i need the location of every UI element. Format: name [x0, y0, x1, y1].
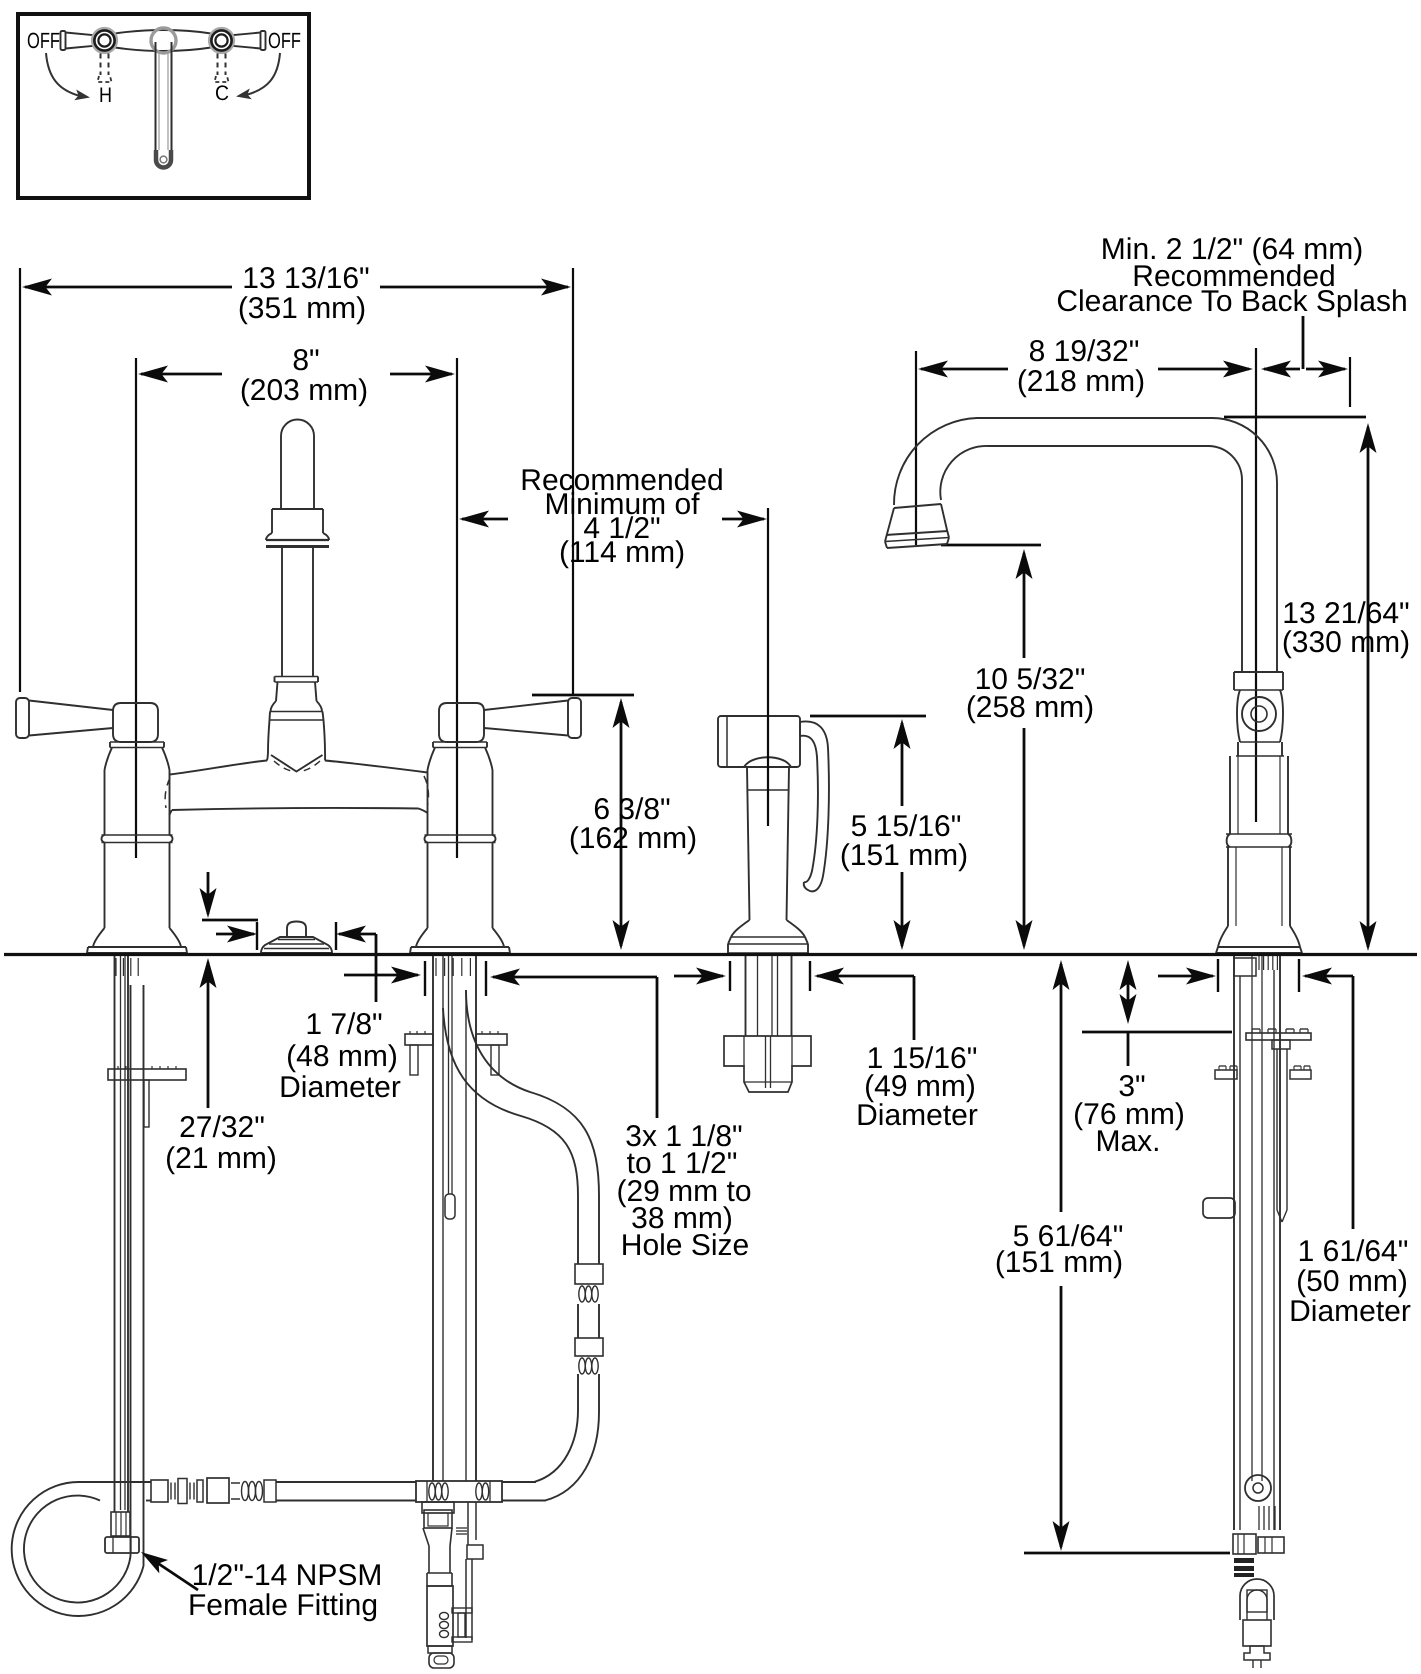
svg-text:(203 mm): (203 mm) [240, 374, 368, 407]
top view left lever [61, 31, 66, 50]
front view spout aerator collar [272, 508, 323, 510]
right spray wand top [1240, 1579, 1274, 1620]
dimension 13 13/16 extension left [19, 268, 21, 692]
svg-text:8": 8" [292, 344, 319, 377]
dimension 1 15/16 leader [913, 976, 916, 1040]
svg-text:OFF: OFF [27, 28, 60, 53]
svg-text:(21 mm): (21 mm) [165, 1142, 277, 1175]
front view left handle hub [113, 703, 158, 742]
svg-text:Clearance To Back Splash: Clearance To Back Splash [1056, 285, 1407, 318]
top view spout tip [156, 150, 171, 168]
sprayer body [747, 767, 750, 920]
svg-text:1 7/8": 1 7/8" [305, 1008, 382, 1041]
right spray wand body [1243, 1620, 1271, 1646]
counter line [4, 953, 1417, 956]
sprayer hose connector 2 [575, 1338, 603, 1356]
sprayer hose to tee curve [545, 1374, 599, 1501]
sprayer lever [800, 721, 829, 891]
side view spout right bend [1212, 418, 1277, 483]
svg-text:1 61/64": 1 61/64" [1298, 1235, 1409, 1268]
dimension 27/32 down arrow [207, 872, 210, 914]
dimension 3 max arrows [1120, 960, 1137, 990]
top view right curved arrow [246, 53, 280, 95]
top view cold handle circle [209, 28, 234, 53]
front view left column ring [101, 835, 104, 843]
dimension 13 13/16 extension right [572, 268, 574, 695]
front view spout funnel to tee [267, 720, 270, 761]
dimension 1 15/16 arrows and ticks [674, 975, 723, 978]
side view spout mouth [894, 504, 941, 508]
dimension 1 7/8 arrows [216, 933, 254, 936]
label 1/2-14 NPSM female fitting arrow [150, 1558, 198, 1590]
recommended minimum 4 1/2 arrows [462, 518, 508, 521]
side view spout left bend [894, 418, 977, 505]
diverter clip [452, 1608, 472, 1613]
right quick connect left [1233, 1534, 1256, 1554]
svg-text:C: C [215, 82, 229, 105]
svg-text:OFF: OFF [268, 28, 301, 53]
right side handle tab [1203, 1198, 1235, 1218]
left hose ribbed connector [111, 1512, 130, 1536]
dimension 1 61/64 leader [1352, 976, 1355, 1229]
svg-text:(218 mm): (218 mm) [1017, 365, 1145, 398]
center lift rod [448, 956, 450, 1194]
left npsm nut [105, 1537, 139, 1553]
sprayer hose connector 1 [575, 1264, 603, 1284]
front view right column upper [427, 770, 429, 835]
top view spout tube [155, 42, 157, 152]
top view bridge bar [115, 30, 211, 34]
top view right lever [261, 31, 266, 50]
svg-text:8 19/32": 8 19/32" [1029, 335, 1140, 368]
side view valve body [1237, 690, 1240, 742]
front view right handle hub [439, 703, 484, 742]
front view drain stopper flange [261, 937, 332, 953]
front view spout lower collar band [275, 676, 319, 678]
side view collar band [1237, 742, 1239, 756]
front view left bonnet [110, 741, 164, 743]
right shank threads [1258, 956, 1260, 970]
right quick connect right [1258, 1537, 1284, 1553]
front view bridge tube [170, 761, 268, 775]
top view cold dashed stem [217, 54, 219, 76]
dimension 8 extension left / handle centerline [135, 358, 137, 858]
right shank top block [1234, 958, 1256, 976]
front view right bonnet [433, 741, 487, 743]
side view body centerline [1255, 348, 1257, 822]
svg-text:Max.: Max. [1095, 1125, 1160, 1158]
dimension 6 3/8 reference line [532, 694, 634, 697]
diverter top connector [422, 1502, 454, 1513]
dimension drain top reference line [202, 919, 258, 922]
supply hose loop riser [143, 985, 145, 1566]
svg-text:(258 mm): (258 mm) [966, 691, 1094, 724]
front view right column lower [427, 843, 429, 929]
dimension hole size arrows and ticks [344, 974, 418, 977]
dimension 10 5/32 line [1016, 549, 1033, 579]
sprayer head dome [744, 757, 791, 767]
top view hot handle circle [92, 28, 117, 53]
dimension 1 7/8 leader [375, 934, 378, 1002]
front view bridge fillet dashes [165, 778, 170, 808]
horizontal supply hose left [79, 1481, 151, 1483]
side view neck collar [1234, 671, 1283, 673]
sprayer head [718, 716, 800, 767]
left mounting bracket [108, 1069, 186, 1080]
diverter body cylinder [427, 1586, 453, 1646]
front view left column lower [104, 843, 106, 929]
center mounting bracket [405, 1034, 433, 1045]
dimension 1 61/64 arrows and ticks [1158, 975, 1213, 978]
dimension min clearance arrows [1261, 361, 1291, 378]
dimension 5 61/64 reference line [1024, 1552, 1230, 1555]
dimension 27/32 up arrow [200, 958, 217, 988]
sprayer nut wings [724, 1036, 811, 1092]
top view spout hub [151, 28, 176, 53]
front view left base [93, 928, 105, 947]
center bracket tabs [410, 1045, 418, 1075]
front view left column upper [104, 770, 106, 835]
right shank tubes [1233, 956, 1235, 1530]
sprayer hose curve from shank [466, 990, 599, 1264]
right ribbed section [1258, 1506, 1260, 1530]
diverter body ribs [440, 1612, 449, 1619]
right hose dark rings [1234, 1558, 1254, 1563]
svg-text:(114 mm): (114 mm) [559, 536, 685, 569]
dimension 8 19/32 line [921, 368, 1008, 371]
dimension 5 61/64 line [1053, 960, 1070, 990]
dimension 13 21/64 reference line [1224, 416, 1366, 419]
svg-text:27/32": 27/32" [179, 1111, 265, 1144]
dimension 13 21/64 line [1360, 423, 1377, 453]
svg-text:H: H [99, 84, 112, 107]
top view box frame [18, 14, 309, 198]
dimension hole size leader [656, 977, 659, 1118]
supply hose coupler [207, 1478, 229, 1503]
sprayer base [731, 920, 750, 937]
dimension 6 3/8 line [620, 702, 623, 946]
front view spout top cap [281, 420, 314, 436]
svg-text:(351 mm): (351 mm) [238, 292, 366, 325]
dimension 10 5/32 reference line [941, 544, 1041, 547]
center shank tubes [432, 956, 434, 1481]
svg-text:13 13/16": 13 13/16" [242, 262, 369, 295]
diverter valve block [424, 1510, 452, 1528]
left shank thread ticks [115, 958, 117, 976]
top view left curved arrow [46, 53, 80, 96]
front view drain stopper knob [287, 922, 306, 938]
side view valve circle [1242, 697, 1276, 731]
front view spout mid tube [281, 547, 283, 677]
side view spout riser [1276, 483, 1278, 672]
side view spout horizontal tube [977, 417, 1212, 419]
front view right lever handle [568, 698, 581, 738]
diverter column [428, 1546, 430, 1573]
svg-text:(151 mm): (151 mm) [840, 839, 968, 872]
diverter bottom [428, 1646, 452, 1653]
dimension 13 13/16 line [25, 286, 232, 289]
svg-text:Diameter: Diameter [1289, 1295, 1411, 1328]
right hanging rod [1272, 1040, 1290, 1049]
front view left lever handle [16, 698, 29, 738]
supply hose braid section [151, 1480, 168, 1502]
svg-text:(330 mm): (330 mm) [1282, 626, 1410, 659]
svg-text:(162 mm): (162 mm) [569, 822, 697, 855]
dimension 8 extension right / handle centerline [456, 358, 458, 858]
sprayer shank [745, 956, 747, 1036]
top view hot dashed stem [100, 54, 102, 76]
front view bridge tee vee [271, 755, 323, 772]
diverter taper [423, 1528, 452, 1546]
svg-text:(48 mm): (48 mm) [286, 1040, 398, 1073]
dimension 8 19/32 extension left [915, 351, 917, 545]
dimension 5 15/16 reference line [810, 715, 926, 718]
right valve circle [1245, 1475, 1271, 1501]
svg-text:(151 mm): (151 mm) [995, 1246, 1123, 1279]
dimension 3 max leader [1127, 1032, 1130, 1066]
dimension 1 7/8 drain ticks [256, 922, 258, 950]
front view right base [416, 928, 428, 947]
diverter side ribs [456, 1527, 467, 1529]
side view base [1218, 926, 1228, 947]
sprayer centerline [767, 508, 769, 826]
dimension 3 max reference line [1082, 1031, 1232, 1034]
tee fitting [416, 1481, 502, 1502]
svg-text:Diameter: Diameter [279, 1071, 401, 1104]
right mounting plate [1246, 1033, 1311, 1040]
dimension 8 line [141, 373, 222, 376]
left shank tubes [114, 956, 116, 1512]
front view right column ring [424, 835, 427, 843]
svg-text:1/2"-14 NPSM: 1/2"-14 NPSM [192, 1559, 383, 1592]
right spray wand tip [1244, 1646, 1270, 1660]
front view spout upper tube [280, 436, 282, 509]
svg-text:(50 mm): (50 mm) [1296, 1265, 1408, 1298]
side view lower column [1227, 847, 1229, 926]
dimension 5 15/16 line [894, 719, 911, 749]
front view spout lower collar body [276, 682, 278, 701]
diverter right tube [467, 1502, 469, 1545]
right wing tabs [1215, 1070, 1237, 1079]
svg-text:Hole Size: Hole Size [621, 1229, 749, 1262]
supply hose loop [12, 1482, 144, 1616]
side view upper column [1229, 756, 1231, 834]
supply hose to tee [276, 1481, 416, 1483]
svg-text:Diameter: Diameter [856, 1099, 978, 1132]
left bracket tab [144, 1080, 149, 1127]
svg-text:Female Fitting: Female Fitting [188, 1589, 378, 1622]
dimension clearance tick [1349, 357, 1351, 407]
side view column ring [1227, 834, 1230, 847]
clearance leader line [1302, 316, 1305, 369]
center shank thread ticks [435, 958, 437, 976]
front view spout lower band [270, 711, 323, 713]
